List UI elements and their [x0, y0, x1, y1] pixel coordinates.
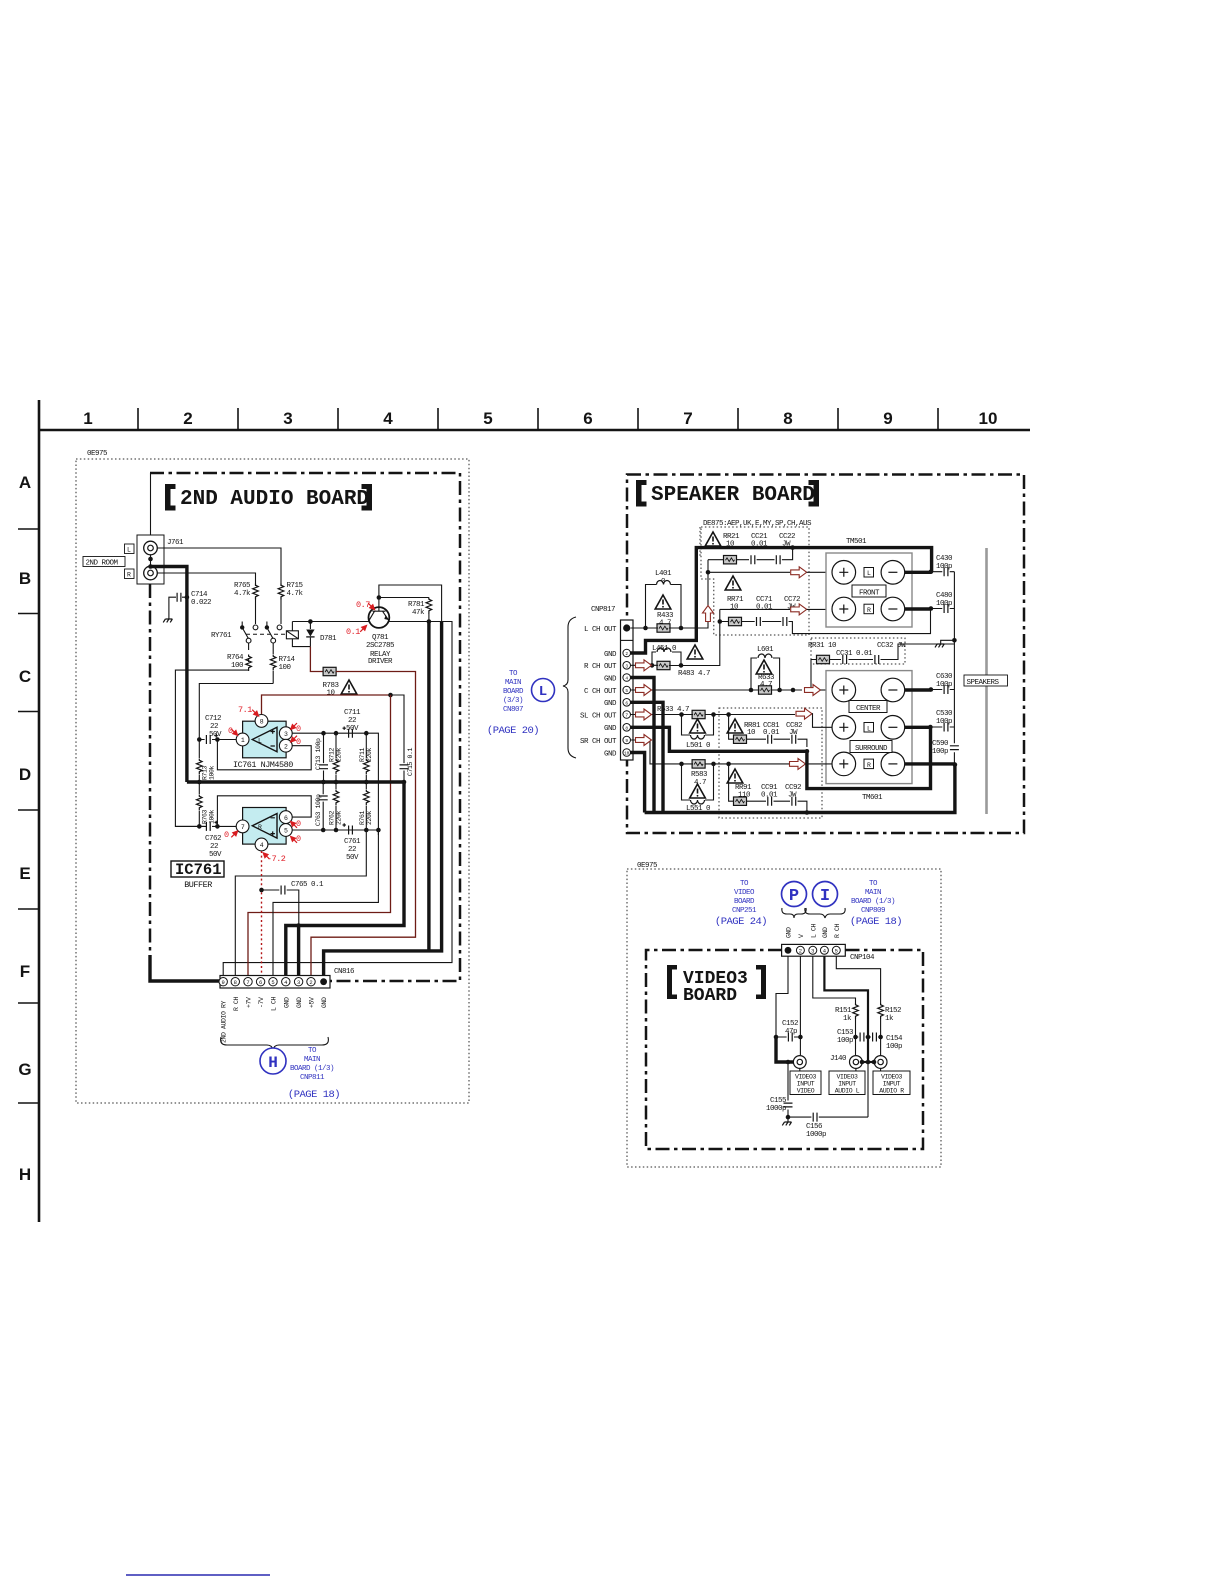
label IC761 BUFFER — [171, 861, 224, 890]
svg-text:9: 9 — [883, 409, 892, 428]
svg-text:C715 0.1: C715 0.1 — [407, 747, 414, 776]
svg-text:GND: GND — [283, 997, 290, 1008]
svg-text:GND: GND — [296, 997, 303, 1008]
wire SL ch out — [631, 714, 796, 716]
svg-text:2: 2 — [309, 979, 312, 986]
transistor Q781 — [366, 598, 395, 667]
svg-text:R: R — [867, 762, 871, 769]
capacitor C711 — [343, 709, 361, 738]
svg-text:DRIVER: DRIVER — [368, 658, 393, 666]
svg-text:1k: 1k — [843, 1015, 852, 1023]
title SPEAKER BOARD — [636, 480, 819, 507]
svg-text:J140: J140 — [830, 1055, 847, 1063]
svg-text:220k: 220k — [366, 810, 373, 825]
svg-text:SL CH OUT: SL CH OUT — [580, 712, 617, 720]
svg-text:J761: J761 — [167, 539, 184, 547]
ruler line — [39, 429, 1030, 432]
svg-text:L CH: L CH — [271, 996, 278, 1011]
wire gnd thick to pin4 — [286, 782, 404, 975]
SR chain RR91 CC91 CC92 — [727, 764, 807, 813]
capacitor C153 — [837, 1029, 868, 1045]
wire U1b output row — [292, 830, 378, 835]
svg-text:(PAGE 18): (PAGE 18) — [850, 916, 902, 928]
svg-text:CNP251: CNP251 — [732, 907, 757, 915]
svg-text:MAIN: MAIN — [865, 889, 881, 897]
rca jack audio R — [874, 1056, 887, 1069]
svg-text:0: 0 — [296, 724, 301, 734]
inductor L401 with R433 — [646, 570, 682, 632]
capacitor C715 — [400, 747, 415, 782]
voltage 0 pin7 — [224, 830, 238, 840]
svg-text:7: 7 — [241, 824, 245, 831]
relay RY761 contacts — [211, 622, 286, 643]
svg-text:8: 8 — [783, 409, 792, 428]
svg-text:2: 2 — [625, 651, 628, 657]
svg-text:3: 3 — [297, 979, 300, 986]
svg-text:C530: C530 — [936, 710, 953, 718]
ground C155 — [782, 1115, 791, 1126]
svg-text:7: 7 — [683, 409, 692, 428]
wire pin2 video — [799, 956, 801, 1055]
svg-text:4: 4 — [383, 409, 393, 428]
svg-text:GND: GND — [604, 700, 617, 708]
title 2ND AUDIO BOARD — [165, 484, 372, 511]
svg-text:+5V: +5V — [309, 997, 316, 1008]
svg-text:100p: 100p — [886, 1043, 902, 1051]
capacitor C765 — [259, 881, 324, 926]
svg-text:4.7k: 4.7k — [234, 590, 251, 598]
svg-text:9: 9 — [625, 738, 628, 744]
svg-text:8: 8 — [625, 725, 628, 731]
svg-text:0: 0 — [228, 726, 233, 736]
svg-text:VIDEO3: VIDEO3 — [795, 1074, 817, 1081]
wire collector to R781 — [379, 597, 429, 599]
front R chain RR71 CC71 CC72 — [720, 576, 931, 634]
wire R ch out — [631, 609, 720, 665]
svg-text:2: 2 — [183, 409, 192, 428]
capacitor C530 — [930, 710, 954, 732]
capacitor C152 — [776, 1020, 800, 1042]
CNP817 pin labels — [580, 626, 617, 759]
svg-text:R483 4.7: R483 4.7 — [678, 670, 710, 678]
node Q781 collector — [377, 595, 382, 600]
feedback loop U1a — [217, 740, 311, 770]
connector CNP104 — [782, 944, 875, 962]
svg-text:3: 3 — [625, 663, 628, 669]
label L — [125, 544, 135, 554]
svg-text:100: 100 — [231, 662, 244, 670]
resistor R151 — [835, 1001, 858, 1055]
wire pin1 gnd — [776, 956, 788, 1037]
svg-text:MAIN: MAIN — [505, 679, 521, 687]
voltage 0 pin5 — [291, 834, 301, 844]
svg-text:VIDEO: VIDEO — [797, 1088, 815, 1095]
svg-text:C CH OUT: C CH OUT — [584, 688, 617, 696]
svg-text:1: 1 — [83, 409, 92, 428]
svg-text:C762: C762 — [205, 835, 221, 843]
svg-text:L: L — [867, 570, 871, 577]
svg-text:CN816: CN816 — [334, 968, 355, 976]
svg-text:C156: C156 — [806, 1123, 823, 1131]
svg-text:R CH: R CH — [233, 996, 240, 1011]
svg-text:CNP104: CNP104 — [850, 954, 875, 962]
arrow SR — [790, 758, 806, 769]
connector ref P — [782, 882, 807, 907]
svg-text:R711: R711 — [359, 747, 366, 762]
svg-text:CNP811: CNP811 — [300, 1074, 325, 1082]
svg-text:AUDIO R: AUDIO R — [879, 1088, 904, 1095]
svg-text:CNP809: CNP809 — [861, 907, 885, 915]
capacitor C430 — [931, 555, 955, 576]
wire pin5 R ch — [836, 956, 880, 1001]
svg-text:2ND AUDIO BOARD: 2ND AUDIO BOARD — [180, 488, 369, 511]
svg-text:1k: 1k — [885, 1015, 894, 1023]
capacitor C761 — [343, 823, 361, 862]
connector ref H — [260, 1048, 286, 1074]
svg-text:6: 6 — [625, 700, 628, 706]
svg-text:0.1: 0.1 — [346, 627, 360, 637]
svg-text:5: 5 — [625, 688, 628, 694]
arrow front R — [791, 604, 807, 615]
svg-text:2: 2 — [284, 743, 288, 750]
svg-text:C711: C711 — [344, 709, 361, 717]
inductor L501 — [682, 715, 714, 751]
svg-text:100: 100 — [279, 664, 292, 672]
svg-text:L601: L601 — [757, 646, 774, 654]
capacitor C712 — [199, 715, 236, 744]
svg-text:3: 3 — [811, 948, 814, 955]
wire relay drive maroon — [310, 647, 324, 672]
svg-text:TO: TO — [869, 880, 878, 888]
inductor L601 with R633 — [751, 646, 780, 694]
svg-text:2ND AUDIO RY: 2ND AUDIO RY — [221, 1000, 228, 1043]
svg-text:E: E — [19, 864, 30, 883]
svg-text:C714: C714 — [191, 591, 208, 599]
arrow up front — [703, 606, 714, 622]
svg-text:BOARD: BOARD — [503, 688, 524, 696]
svg-text:R CH OUT: R CH OUT — [584, 663, 617, 671]
svg-text:CNP817: CNP817 — [591, 606, 615, 614]
arrow front L — [791, 567, 807, 578]
svg-text:C430: C430 — [936, 555, 953, 563]
svg-text:0.01: 0.01 — [756, 604, 773, 612]
svg-text:R152: R152 — [885, 1007, 901, 1015]
svg-text:TO: TO — [740, 880, 749, 888]
svg-text:L501 0: L501 0 — [686, 742, 711, 750]
capacitor C156 — [788, 1062, 868, 1139]
svg-text:CN807: CN807 — [503, 706, 523, 714]
svg-text:GND: GND — [604, 651, 617, 659]
wire front R minus — [905, 607, 931, 610]
svg-text:9: 9 — [222, 979, 225, 986]
svg-text:0: 0 — [224, 830, 229, 840]
gray bus line — [985, 548, 988, 814]
svg-text:L: L — [258, 738, 262, 745]
svg-text:(PAGE 18): (PAGE 18) — [288, 1089, 340, 1101]
rca jack video — [793, 1056, 806, 1069]
label box VIDEO3 INPUT VIDEO — [790, 1069, 821, 1095]
connector CN816 — [219, 968, 355, 988]
svg-text:BUFFER: BUFFER — [184, 880, 212, 890]
svg-text:22: 22 — [210, 843, 218, 851]
wire collector top — [379, 585, 442, 621]
svg-text:C712: C712 — [205, 715, 221, 723]
resistor R713 — [197, 740, 216, 783]
C chain RR31 CC31 CC32 — [808, 642, 954, 692]
svg-text:VIDEO3: VIDEO3 — [881, 1074, 903, 1081]
svg-text:BOARD: BOARD — [683, 986, 737, 1006]
svg-text:L CH: L CH — [810, 923, 817, 938]
svg-text:7.1: 7.1 — [238, 705, 252, 715]
svg-text:6: 6 — [284, 815, 288, 822]
svg-text:22: 22 — [210, 723, 218, 731]
note to main board CNP809 — [850, 880, 902, 928]
braces P I — [782, 908, 806, 918]
svg-text:R712: R712 — [329, 747, 336, 762]
svg-text:47p: 47p — [785, 1028, 797, 1036]
caps bus vertical — [953, 572, 955, 765]
svg-text:P: P — [789, 887, 799, 906]
svg-text:TO: TO — [308, 1047, 317, 1055]
resistor R714 — [270, 643, 295, 684]
svg-text:8: 8 — [234, 979, 237, 986]
wire TM501 thick gnd — [631, 548, 932, 653]
capacitor C480 — [931, 592, 955, 613]
resistor R781 — [408, 598, 432, 622]
voltage 0 pin1 — [228, 726, 238, 736]
speaker block FRONT — [826, 553, 912, 627]
svg-text:B: B — [19, 569, 31, 588]
connector J761 — [137, 473, 184, 584]
svg-text:22: 22 — [348, 846, 356, 854]
wire C ch out — [631, 689, 803, 691]
wire center minus — [905, 688, 931, 691]
svg-text:R CH: R CH — [834, 923, 841, 938]
note to main board CN807 — [487, 670, 539, 737]
front L chain RR21 CC21 CC22 — [705, 532, 795, 564]
label 2ND ROOM — [83, 557, 125, 568]
svg-text:50V: 50V — [346, 854, 359, 862]
svg-text:AUDIO L: AUDIO L — [835, 1088, 860, 1095]
relay coil RY761 — [286, 622, 310, 647]
svg-text:GND: GND — [321, 997, 328, 1008]
svg-text:5: 5 — [483, 409, 492, 428]
svg-text:0.7: 0.7 — [356, 600, 370, 610]
svg-text:VIDEO: VIDEO — [734, 889, 755, 897]
svg-text:4: 4 — [260, 842, 264, 849]
svg-text:5: 5 — [271, 979, 274, 986]
capacitor C713 — [315, 733, 328, 782]
gnd wires CNP817 — [631, 678, 655, 813]
svg-text:GND: GND — [786, 927, 793, 938]
svg-text:5: 5 — [284, 828, 288, 835]
svg-text:MAIN: MAIN — [304, 1056, 320, 1064]
svg-text:100k: 100k — [209, 809, 216, 824]
svg-text:IC761: IC761 — [175, 861, 222, 879]
svg-text:10: 10 — [326, 690, 335, 698]
svg-text:47k: 47k — [412, 609, 425, 617]
connector ref L — [532, 679, 555, 702]
svg-text:2SC2785: 2SC2785 — [366, 642, 395, 650]
svg-text:SPEAKERS: SPEAKERS — [967, 679, 1000, 687]
svg-text:1000p: 1000p — [766, 1105, 786, 1113]
wire SR ch out — [631, 740, 796, 764]
svg-text:8: 8 — [260, 719, 264, 726]
svg-text:R: R — [867, 607, 871, 614]
svg-text:(PAGE 24): (PAGE 24) — [715, 916, 767, 928]
svg-text:C154: C154 — [886, 1035, 903, 1043]
capacitor C630 — [931, 673, 955, 694]
wire surround R minus thick — [645, 764, 955, 813]
speaker block CENTER — [826, 671, 912, 784]
svg-text:3: 3 — [284, 731, 288, 738]
dotted variant box SL SR chains — [719, 708, 822, 818]
svg-text:100p: 100p — [837, 1037, 853, 1045]
voltage 0 pin3 — [291, 723, 301, 734]
svg-text:R714: R714 — [279, 656, 296, 664]
capacitor C155 — [766, 1062, 793, 1117]
connector ref I — [813, 882, 838, 907]
wire U1a output row — [273, 733, 378, 975]
svg-text:C152: C152 — [782, 1020, 798, 1028]
resistor R765 — [234, 582, 258, 624]
svg-text:7: 7 — [246, 979, 249, 986]
feedback loop U1b — [217, 796, 311, 827]
svg-text:R583: R583 — [691, 771, 708, 779]
svg-text:2ND ROOM: 2ND ROOM — [86, 560, 119, 568]
speaker block SURROUND — [832, 716, 905, 776]
brace CN816 — [221, 1037, 329, 1050]
resistor R764 — [227, 643, 251, 671]
svg-text:R762: R762 — [329, 810, 336, 825]
label box VIDEO3 INPUT AUDIO R — [873, 1069, 910, 1095]
wire emitter gnd down (to CN816 pin1) — [427, 622, 430, 951]
inductor L451 with R483 — [652, 645, 710, 678]
svg-text:SPEAKER BOARD: SPEAKER BOARD — [651, 484, 815, 507]
svg-text:-7V: -7V — [258, 997, 265, 1008]
svg-text:R763: R763 — [202, 809, 209, 824]
svg-text:22: 22 — [348, 717, 356, 725]
dotted board region — [76, 459, 469, 1103]
wire -7.2 dotted to pin6 — [261, 851, 263, 975]
svg-text:D781: D781 — [320, 635, 337, 643]
blue footer line — [126, 1574, 270, 1576]
note to video board CNP251 — [715, 880, 767, 928]
diode D781 — [306, 622, 337, 647]
wire R714 to C712 — [199, 684, 273, 740]
svg-text:C713 100p: C713 100p — [315, 738, 322, 770]
op-amp U1b IC761 — [236, 808, 292, 851]
svg-text:5: 5 — [835, 948, 838, 955]
SL chain RR81 CC81 CC82 — [727, 715, 807, 748]
left border line — [38, 400, 41, 1222]
svg-text:INPUT: INPUT — [838, 1081, 856, 1088]
svg-text:G: G — [18, 1060, 31, 1079]
svg-text:R151: R151 — [835, 1007, 852, 1015]
svg-text:220k: 220k — [366, 747, 373, 762]
brace CNP817 — [563, 617, 576, 758]
svg-text:50V: 50V — [209, 731, 222, 739]
wire Q781 emitter — [223, 622, 452, 976]
svg-text:R715: R715 — [287, 582, 304, 590]
svg-text:Q781: Q781 — [372, 634, 389, 642]
ruler ticks — [39, 400, 938, 430]
svg-text:I: I — [820, 887, 830, 906]
svg-text:10: 10 — [730, 604, 739, 612]
svg-text:R: R — [258, 824, 262, 831]
svg-text:INPUT: INPUT — [797, 1081, 815, 1088]
svg-text:A: A — [19, 473, 31, 492]
wire R channel to R765 — [157, 573, 255, 584]
wire R764 to C762 — [175, 670, 248, 826]
dotted variant box C chain — [811, 638, 905, 664]
voltage 0 pin2 — [291, 736, 301, 747]
svg-text:C155: C155 — [770, 1097, 787, 1105]
resistor R715 — [278, 582, 303, 624]
dotted board region — [627, 869, 941, 1167]
svg-text:R765: R765 — [234, 582, 251, 590]
wire front L minus — [905, 571, 931, 574]
label R — [125, 569, 135, 579]
gnd stub speaker — [935, 638, 957, 647]
wire surround L minus — [905, 726, 931, 729]
svg-text:1: 1 — [241, 737, 245, 744]
svg-text:R: R — [127, 572, 131, 579]
svg-text:BOARD: BOARD — [734, 898, 755, 906]
svg-text:50V: 50V — [209, 851, 222, 859]
voltage 0.7 — [356, 600, 375, 610]
svg-text:4: 4 — [625, 676, 628, 682]
svg-text:SURROUND: SURROUND — [855, 745, 888, 753]
rca jack audio L — [850, 1056, 863, 1069]
wire L ch out — [631, 560, 709, 628]
svg-text:GND: GND — [604, 725, 617, 733]
CNP104 pin labels — [786, 923, 841, 938]
label SPEAKERS — [964, 675, 1008, 687]
voltage 7.1 — [238, 705, 259, 716]
wire U1b out junction — [376, 828, 381, 833]
warning triangle R783 — [341, 680, 357, 694]
capacitor C714 — [169, 591, 211, 619]
node emitter — [427, 619, 432, 624]
svg-text:(3/3): (3/3) — [503, 697, 523, 705]
resistor R761 — [235, 782, 372, 975]
fusible R533 — [657, 706, 705, 719]
wire base line to Q781 — [292, 621, 369, 623]
resistor R152 — [878, 1001, 901, 1055]
capacitor C762 — [175, 821, 236, 859]
svg-text:SR CH OUT: SR CH OUT — [580, 738, 617, 746]
svg-text:10: 10 — [979, 409, 998, 428]
left ticks — [18, 529, 39, 1103]
PAGE FRAME — [18, 400, 1030, 1575]
arrows at CNP817 outputs — [636, 660, 652, 671]
svg-text:JW: JW — [789, 729, 798, 737]
svg-text:GND: GND — [604, 750, 617, 758]
svg-text:-7.2: -7.2 — [267, 854, 286, 864]
svg-text:D: D — [19, 765, 31, 784]
svg-text:GND: GND — [604, 675, 617, 683]
svg-text:BOARD (1/3): BOARD (1/3) — [290, 1065, 334, 1073]
svg-text:L: L — [867, 725, 871, 732]
svg-text:R764: R764 — [227, 654, 244, 662]
fusible resistor R783 — [322, 667, 339, 697]
resistor R762 — [329, 782, 343, 830]
svg-text:+7V: +7V — [246, 997, 253, 1008]
svg-text:RR31 10: RR31 10 — [808, 642, 837, 650]
svg-text:L: L — [539, 684, 547, 700]
board outline dash-dot — [646, 950, 923, 1149]
